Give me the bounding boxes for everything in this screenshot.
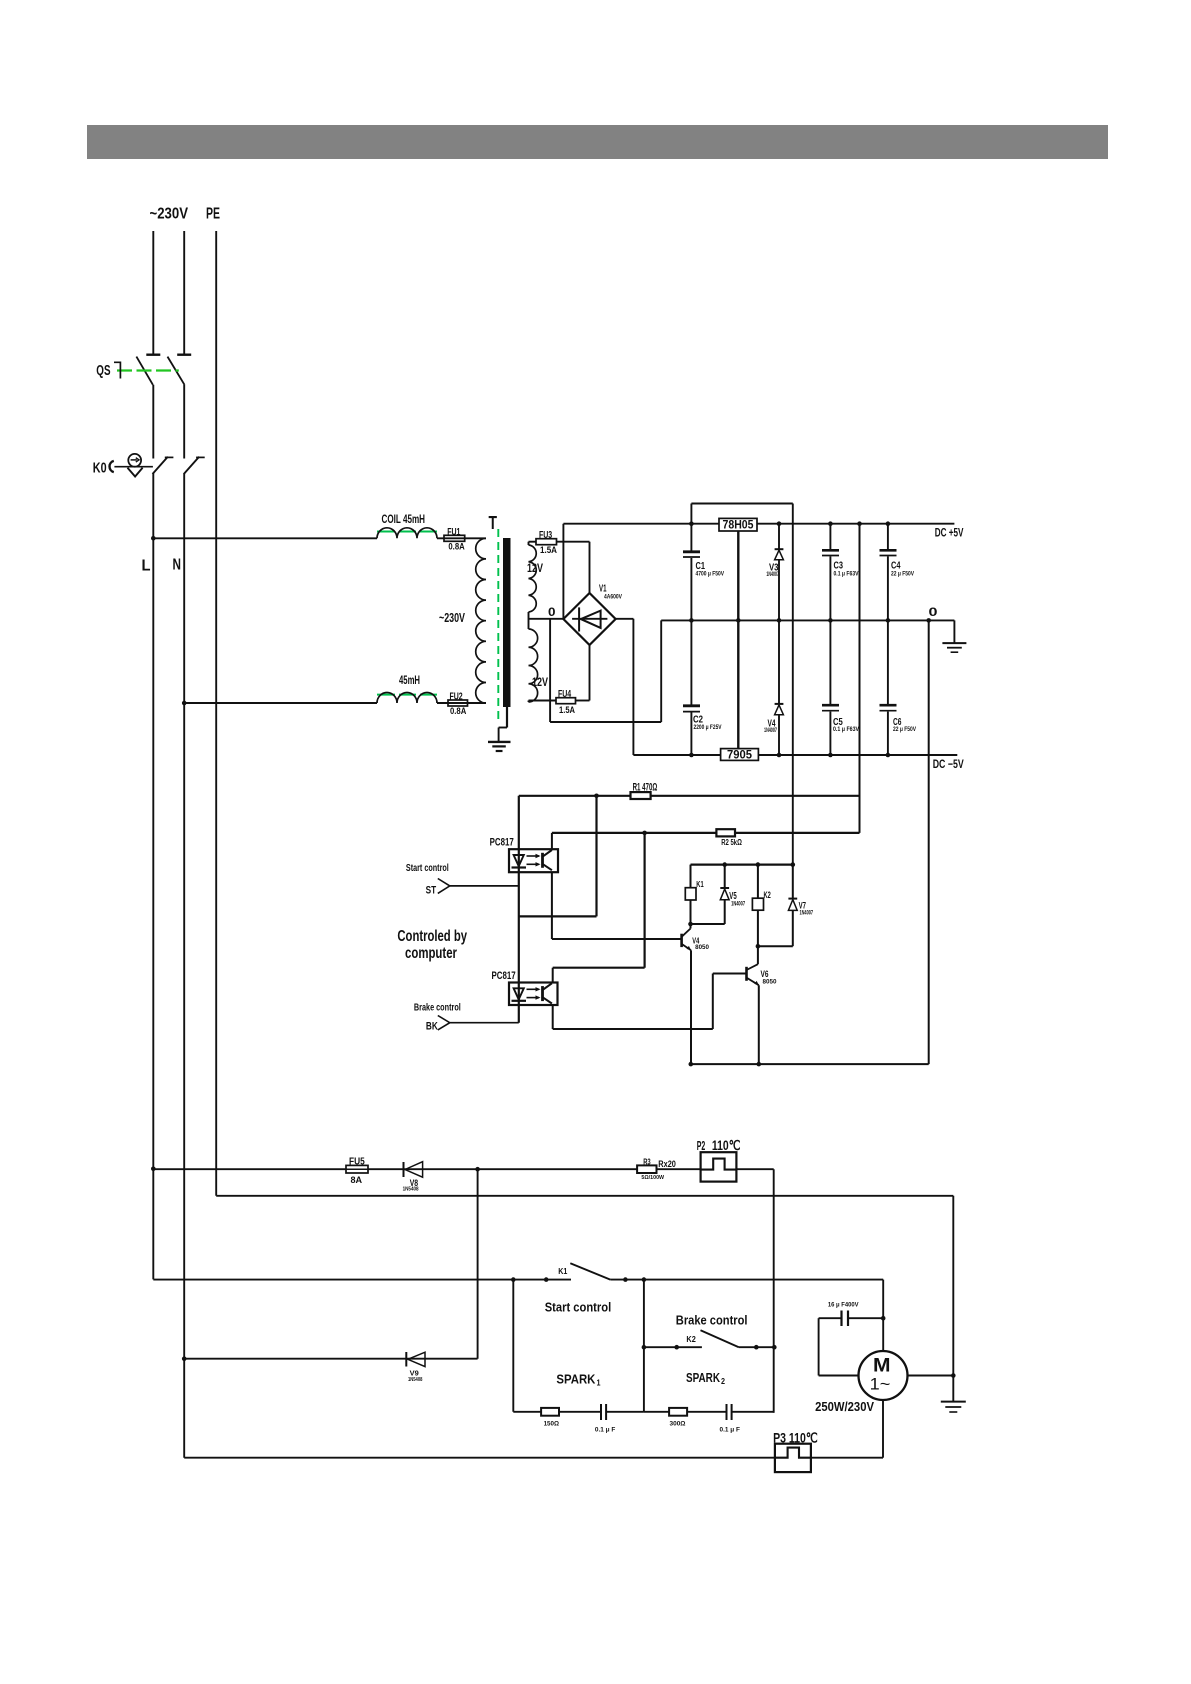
svg-text:SPARK: SPARK bbox=[686, 1370, 720, 1385]
wire coil to FU1 bbox=[437, 537, 486, 539]
svg-text:22 μ F50V: 22 μ F50V bbox=[891, 570, 914, 577]
svg-text:1.5A: 1.5A bbox=[559, 704, 575, 715]
text SPARK1 bbox=[556, 1372, 601, 1388]
wire center tap detour below bridge bbox=[550, 619, 661, 722]
switch QS pole 2 bbox=[168, 355, 192, 385]
node PE label bbox=[206, 206, 220, 223]
regulator 7905 bbox=[721, 748, 759, 762]
svg-text:12V: 12V bbox=[532, 675, 548, 689]
svg-text:12V: 12V bbox=[527, 561, 543, 575]
wire opto anode chain vertical bbox=[518, 796, 520, 1023]
zener V5 1N4007 bbox=[691, 865, 746, 924]
wire opto2 emitter to V6 base bbox=[553, 974, 747, 1030]
wire motor bottom to P3 bbox=[811, 1400, 883, 1458]
wire secondary bottom to FU4 bbox=[529, 701, 557, 703]
thermal switch P3 110C bbox=[773, 1429, 818, 1472]
transistor V6 8050 bbox=[747, 946, 777, 985]
svg-text:P2: P2 bbox=[697, 1139, 706, 1153]
capacitor C4 22uF (top) bbox=[880, 521, 915, 622]
svg-text:K0: K0 bbox=[93, 459, 107, 476]
wire L to line filter coil bbox=[153, 537, 377, 539]
svg-text:7905: 7905 bbox=[727, 748, 752, 762]
text 250W/230V bbox=[815, 1399, 874, 1414]
relay coil K2 bbox=[752, 865, 770, 949]
transformer core dashed line (green) bbox=[497, 529, 499, 721]
svg-text:0.1 μ F: 0.1 μ F bbox=[595, 1426, 616, 1433]
optocoupler PC817 (brake) bbox=[492, 970, 558, 1005]
wire FU3 to bridge top bbox=[557, 542, 590, 593]
svg-text:1N4007: 1N4007 bbox=[766, 571, 779, 578]
wire motor feed line from L bbox=[151, 1167, 774, 1172]
svg-text:16 μ F400V: 16 μ F400V bbox=[828, 1301, 859, 1308]
node L label bbox=[142, 558, 151, 575]
svg-text:0.1 μ F63V: 0.1 μ F63V bbox=[833, 726, 859, 733]
svg-text:2: 2 bbox=[721, 1377, 725, 1386]
fuse FU3 1.5A bbox=[536, 530, 557, 555]
svg-text:1N5408: 1N5408 bbox=[408, 1377, 423, 1383]
spark1 RC snubber bbox=[513, 1404, 644, 1433]
fuse FU5 8A bbox=[346, 1157, 368, 1186]
svg-text:DC +5V: DC +5V bbox=[935, 526, 964, 540]
wire coil to FU2 bbox=[437, 702, 486, 704]
svg-text:2200 μ F25V: 2200 μ F25V bbox=[694, 724, 722, 731]
svg-text:~230V: ~230V bbox=[439, 610, 465, 625]
inductor 45mH (bottom) bbox=[377, 675, 437, 703]
svg-text:4700 μ F50V: 4700 μ F50V bbox=[696, 570, 725, 577]
regulator 78H05 bbox=[719, 518, 757, 532]
wire motor right to frame bbox=[908, 1375, 954, 1377]
transformer secondary winding top 12V bbox=[527, 545, 543, 612]
capacitor C1 4700uF bbox=[683, 521, 724, 622]
svg-text:PC817: PC817 bbox=[492, 970, 516, 982]
capacitor C2 2200uF (bottom) bbox=[683, 620, 722, 757]
svg-text:22 μ F50V: 22 μ F50V bbox=[893, 726, 916, 733]
wire regulator bypass loop bbox=[691, 504, 792, 865]
relay coil K1 bbox=[685, 865, 704, 927]
svg-text:~230V: ~230V bbox=[150, 206, 189, 223]
switch QS linkage (green dashed) bbox=[117, 369, 179, 371]
zener V7 1N4007 bbox=[758, 865, 813, 947]
text Controled by computer bbox=[397, 928, 467, 962]
wire FU4 to bridge bottom bbox=[576, 645, 590, 701]
svg-text:0: 0 bbox=[929, 605, 938, 619]
svg-text:DC −5V: DC −5V bbox=[933, 757, 964, 771]
svg-text:R2 5kΩ: R2 5kΩ bbox=[721, 837, 742, 847]
svg-text:1~: 1~ bbox=[870, 1376, 891, 1394]
svg-text:Brake control: Brake control bbox=[414, 1003, 461, 1014]
wire bridge plus output up to +rail bbox=[562, 524, 564, 619]
svg-text:PE: PE bbox=[206, 206, 220, 223]
svg-text:K1: K1 bbox=[696, 880, 704, 889]
wire PE to motor frame bbox=[216, 1195, 953, 1197]
svg-text:0.1 μ F63V: 0.1 μ F63V bbox=[834, 570, 859, 577]
svg-text:4A600V: 4A600V bbox=[604, 594, 623, 601]
svg-text:45mH: 45mH bbox=[399, 675, 420, 687]
svg-text:0: 0 bbox=[548, 607, 556, 619]
transformer primary winding bbox=[476, 538, 486, 703]
svg-text:8050: 8050 bbox=[763, 978, 777, 985]
wire V4 emitter to ground bus bbox=[690, 950, 692, 1064]
wire P2 down to brake contact branch bbox=[773, 1169, 775, 1413]
svg-text:N: N bbox=[173, 557, 182, 574]
svg-text:ST: ST bbox=[426, 885, 437, 897]
diode V9 line from N bbox=[182, 1356, 478, 1361]
wire spark divider leg bbox=[642, 1280, 647, 1412]
wire relay supply bus bbox=[691, 862, 796, 867]
wire N phase drop to QS bbox=[183, 231, 185, 354]
svg-text:0.1 μ F: 0.1 μ F bbox=[720, 1426, 741, 1433]
resistor R2 5k and collector wire bbox=[552, 829, 860, 847]
wire -5V rail bbox=[633, 754, 957, 756]
svg-text:300Ω: 300Ω bbox=[670, 1420, 686, 1427]
svg-text:K1: K1 bbox=[558, 1266, 567, 1276]
svg-text:V6: V6 bbox=[761, 969, 769, 979]
bridge rectifier V1 4A600V bbox=[563, 583, 622, 646]
connector BK brake control bbox=[414, 1003, 519, 1033]
svg-text:250W/230V: 250W/230V bbox=[815, 1399, 874, 1414]
wire L between QS and K0 bbox=[152, 385, 154, 459]
svg-text:Controled by: Controled by bbox=[397, 928, 467, 945]
svg-text:5Ω/100W: 5Ω/100W bbox=[641, 1175, 664, 1181]
wire +5V feed down to R1 R2 bbox=[857, 521, 862, 833]
thermal switch P2 110C bbox=[697, 1137, 741, 1181]
wire motor frame vertical and ground bbox=[941, 1196, 966, 1412]
wire K1 contact to motor bbox=[610, 1277, 885, 1351]
svg-text:PC817: PC817 bbox=[490, 836, 514, 848]
wire opto1 emitter to V4 base bbox=[552, 872, 682, 939]
capacitor 16uF400V motor run cap bbox=[819, 1301, 884, 1375]
header gray bar bbox=[87, 125, 1108, 159]
transformer core bbox=[503, 538, 511, 707]
fuse FU2 0.8A bbox=[448, 692, 468, 717]
wire spark1 left leg bbox=[512, 1280, 514, 1412]
capacitor C3 0.1uF (top) bbox=[822, 521, 859, 622]
svg-text:M: M bbox=[873, 1355, 891, 1377]
wire R1 branch to brake opto bbox=[519, 796, 597, 917]
svg-text:Start control: Start control bbox=[545, 1301, 612, 1315]
switch K2 contact and wire bbox=[644, 1330, 777, 1349]
wire secondary top to FU3 bbox=[529, 542, 537, 545]
fuse FU1 0.8A bbox=[444, 527, 465, 552]
resistor R3 Rx20 bbox=[637, 1156, 676, 1181]
node DC -5V bbox=[933, 757, 964, 771]
svg-text:QS: QS bbox=[96, 363, 110, 379]
svg-text:1N4007: 1N4007 bbox=[764, 727, 777, 734]
text SPARK2 bbox=[686, 1370, 725, 1386]
wire V6 emitter to ground bus bbox=[758, 985, 760, 1064]
svg-text:1N4007: 1N4007 bbox=[800, 909, 814, 916]
svg-text:0.8A: 0.8A bbox=[450, 705, 466, 716]
node DC +5V bbox=[935, 526, 964, 540]
transformer secondary winding bottom 12V bbox=[529, 629, 549, 702]
inductor COIL 45mH (top) bbox=[377, 514, 437, 538]
diode V8 bbox=[403, 1162, 423, 1193]
svg-text:Start control: Start control bbox=[406, 863, 449, 874]
spark2 RC snubber bbox=[644, 1404, 774, 1433]
wire L phase drop to QS bbox=[152, 231, 154, 354]
wire opto2 collector up to R2 line bbox=[553, 833, 645, 983]
wire regulator common leg bbox=[736, 531, 741, 749]
wire L branch to K1 contact bbox=[153, 1277, 571, 1282]
zener V4 1N4007 (bottom) bbox=[764, 620, 783, 757]
resistor R1 470 ohm and wire bbox=[519, 782, 860, 799]
svg-text:COIL 45mH: COIL 45mH bbox=[382, 514, 426, 526]
wire N to P3 bbox=[184, 1457, 775, 1459]
motor M 1~ bbox=[859, 1351, 908, 1400]
svg-text:SPARK: SPARK bbox=[556, 1372, 596, 1387]
text Start control (bottom) bbox=[545, 1301, 612, 1315]
wire N main vertical down to P3 branch bbox=[183, 473, 185, 1457]
node N label bbox=[173, 557, 182, 574]
transformer ground bbox=[488, 706, 511, 752]
wire L main vertical down to motor branch bbox=[152, 473, 154, 1279]
svg-text:8A: 8A bbox=[351, 1174, 363, 1185]
svg-text:computer: computer bbox=[405, 945, 457, 962]
node ~230V label bbox=[150, 206, 189, 223]
optocoupler PC817 (start) bbox=[490, 836, 558, 872]
svg-text:0.8A: 0.8A bbox=[448, 541, 464, 552]
wire junction vertical FU5 line to V9 line bbox=[477, 1169, 479, 1359]
svg-text:BK: BK bbox=[426, 1021, 438, 1033]
svg-text:1: 1 bbox=[597, 1379, 601, 1388]
svg-text:R1 470Ω: R1 470Ω bbox=[633, 782, 658, 794]
svg-text:T: T bbox=[489, 512, 498, 533]
wire PE conductor vertical bbox=[215, 231, 217, 1196]
switch K0 actuator symbol bbox=[93, 454, 153, 477]
switch QS pole 1 bbox=[136, 355, 160, 385]
junction L to transformer feed bbox=[151, 536, 156, 541]
transistor V4 8050 bbox=[682, 924, 710, 951]
switch K0 contact 2 (NC) bbox=[184, 457, 205, 474]
svg-text:1N5408: 1N5408 bbox=[403, 1186, 420, 1192]
svg-text:K2: K2 bbox=[764, 890, 771, 900]
wire opto1 collector to R2 line bbox=[551, 833, 553, 849]
wire 0V rail bbox=[661, 619, 954, 621]
connector ST start control bbox=[406, 863, 519, 896]
zener V3 1N4007 (top) bbox=[766, 521, 783, 622]
svg-text:1N4007: 1N4007 bbox=[731, 901, 745, 908]
wire +5V rail bbox=[563, 523, 954, 525]
svg-text:Rx20: Rx20 bbox=[658, 1159, 676, 1170]
wire N between QS and K0 bbox=[183, 385, 185, 459]
text Brake control (bottom) bbox=[676, 1314, 748, 1328]
node 0 and ground bbox=[929, 605, 967, 652]
capacitor C5 0.1uF (bottom) bbox=[822, 620, 859, 757]
svg-text:L: L bbox=[142, 558, 151, 575]
svg-text:1.5A: 1.5A bbox=[540, 544, 557, 555]
switch QS label and bracket bbox=[96, 362, 120, 379]
transformer primary value ~230V bbox=[439, 610, 465, 625]
wire control ground bus bbox=[689, 1062, 929, 1067]
junction N to transformer feed bbox=[182, 701, 187, 706]
svg-text:K2: K2 bbox=[686, 1334, 696, 1344]
switch K0 contact 1 (NC) bbox=[153, 457, 174, 474]
svg-text:110℃: 110℃ bbox=[712, 1137, 741, 1153]
switch K1 contact bbox=[558, 1263, 610, 1279]
fuse FU4 1.5A bbox=[556, 689, 576, 715]
transformer T label bbox=[489, 512, 498, 533]
svg-text:150Ω: 150Ω bbox=[544, 1420, 559, 1427]
capacitor C6 22uF (bottom) bbox=[880, 620, 917, 757]
wire 0V feed down to control ground bus bbox=[926, 618, 931, 1064]
svg-text:78H05: 78H05 bbox=[723, 518, 754, 532]
transformer center tap bbox=[529, 607, 564, 629]
wire bridge minus output to -rail bbox=[616, 619, 634, 755]
svg-text:8050: 8050 bbox=[695, 944, 709, 951]
wire N to lower coil bbox=[184, 702, 377, 704]
diode V9 bbox=[406, 1352, 425, 1383]
svg-text:Brake control: Brake control bbox=[676, 1314, 748, 1328]
